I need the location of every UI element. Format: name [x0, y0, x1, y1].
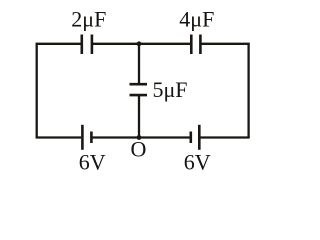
svg-text:4μF: 4μF [179, 7, 214, 32]
wire: top-left segment (corner to C1 left plate) [36, 43, 81, 45]
wire: left side of loop [36, 43, 38, 139]
wire: bottom-left segment (corner to left battery) [36, 136, 82, 138]
capacitor C3 5μF plates [130, 83, 148, 86]
node: top junction dot [137, 41, 142, 46]
svg-text:5μF: 5μF [153, 77, 188, 102]
wire: top-right segment (C2 right plate to corner) [202, 43, 250, 45]
wire: right side of loop [247, 43, 249, 139]
wire: middle branch upper (top node to C3 top plate) [138, 44, 140, 84]
battery B2 6V (short plate, long plate) [190, 132, 193, 144]
capacitor C2 4μF plates [190, 35, 193, 55]
svg-text:O: O [130, 136, 146, 161]
wire: bottom-right segment (right battery to corner) [200, 136, 249, 138]
svg-text:2μF: 2μF [71, 7, 106, 32]
wire: bottom-middle segment (left battery to right battery, through node O) [92, 136, 189, 138]
wire: middle branch lower (C3 bottom plate to node O) [138, 96, 140, 138]
svg-text:6V: 6V [79, 150, 106, 175]
capacitor C1 2μF plates [81, 35, 84, 55]
svg-text:6V: 6V [184, 150, 211, 175]
wire: top-middle segment (C1 right plate to C2 left plate, through node) [93, 43, 190, 45]
battery B1 6V (long plate, short plate) [81, 125, 84, 150]
node O junction dot [137, 135, 142, 140]
